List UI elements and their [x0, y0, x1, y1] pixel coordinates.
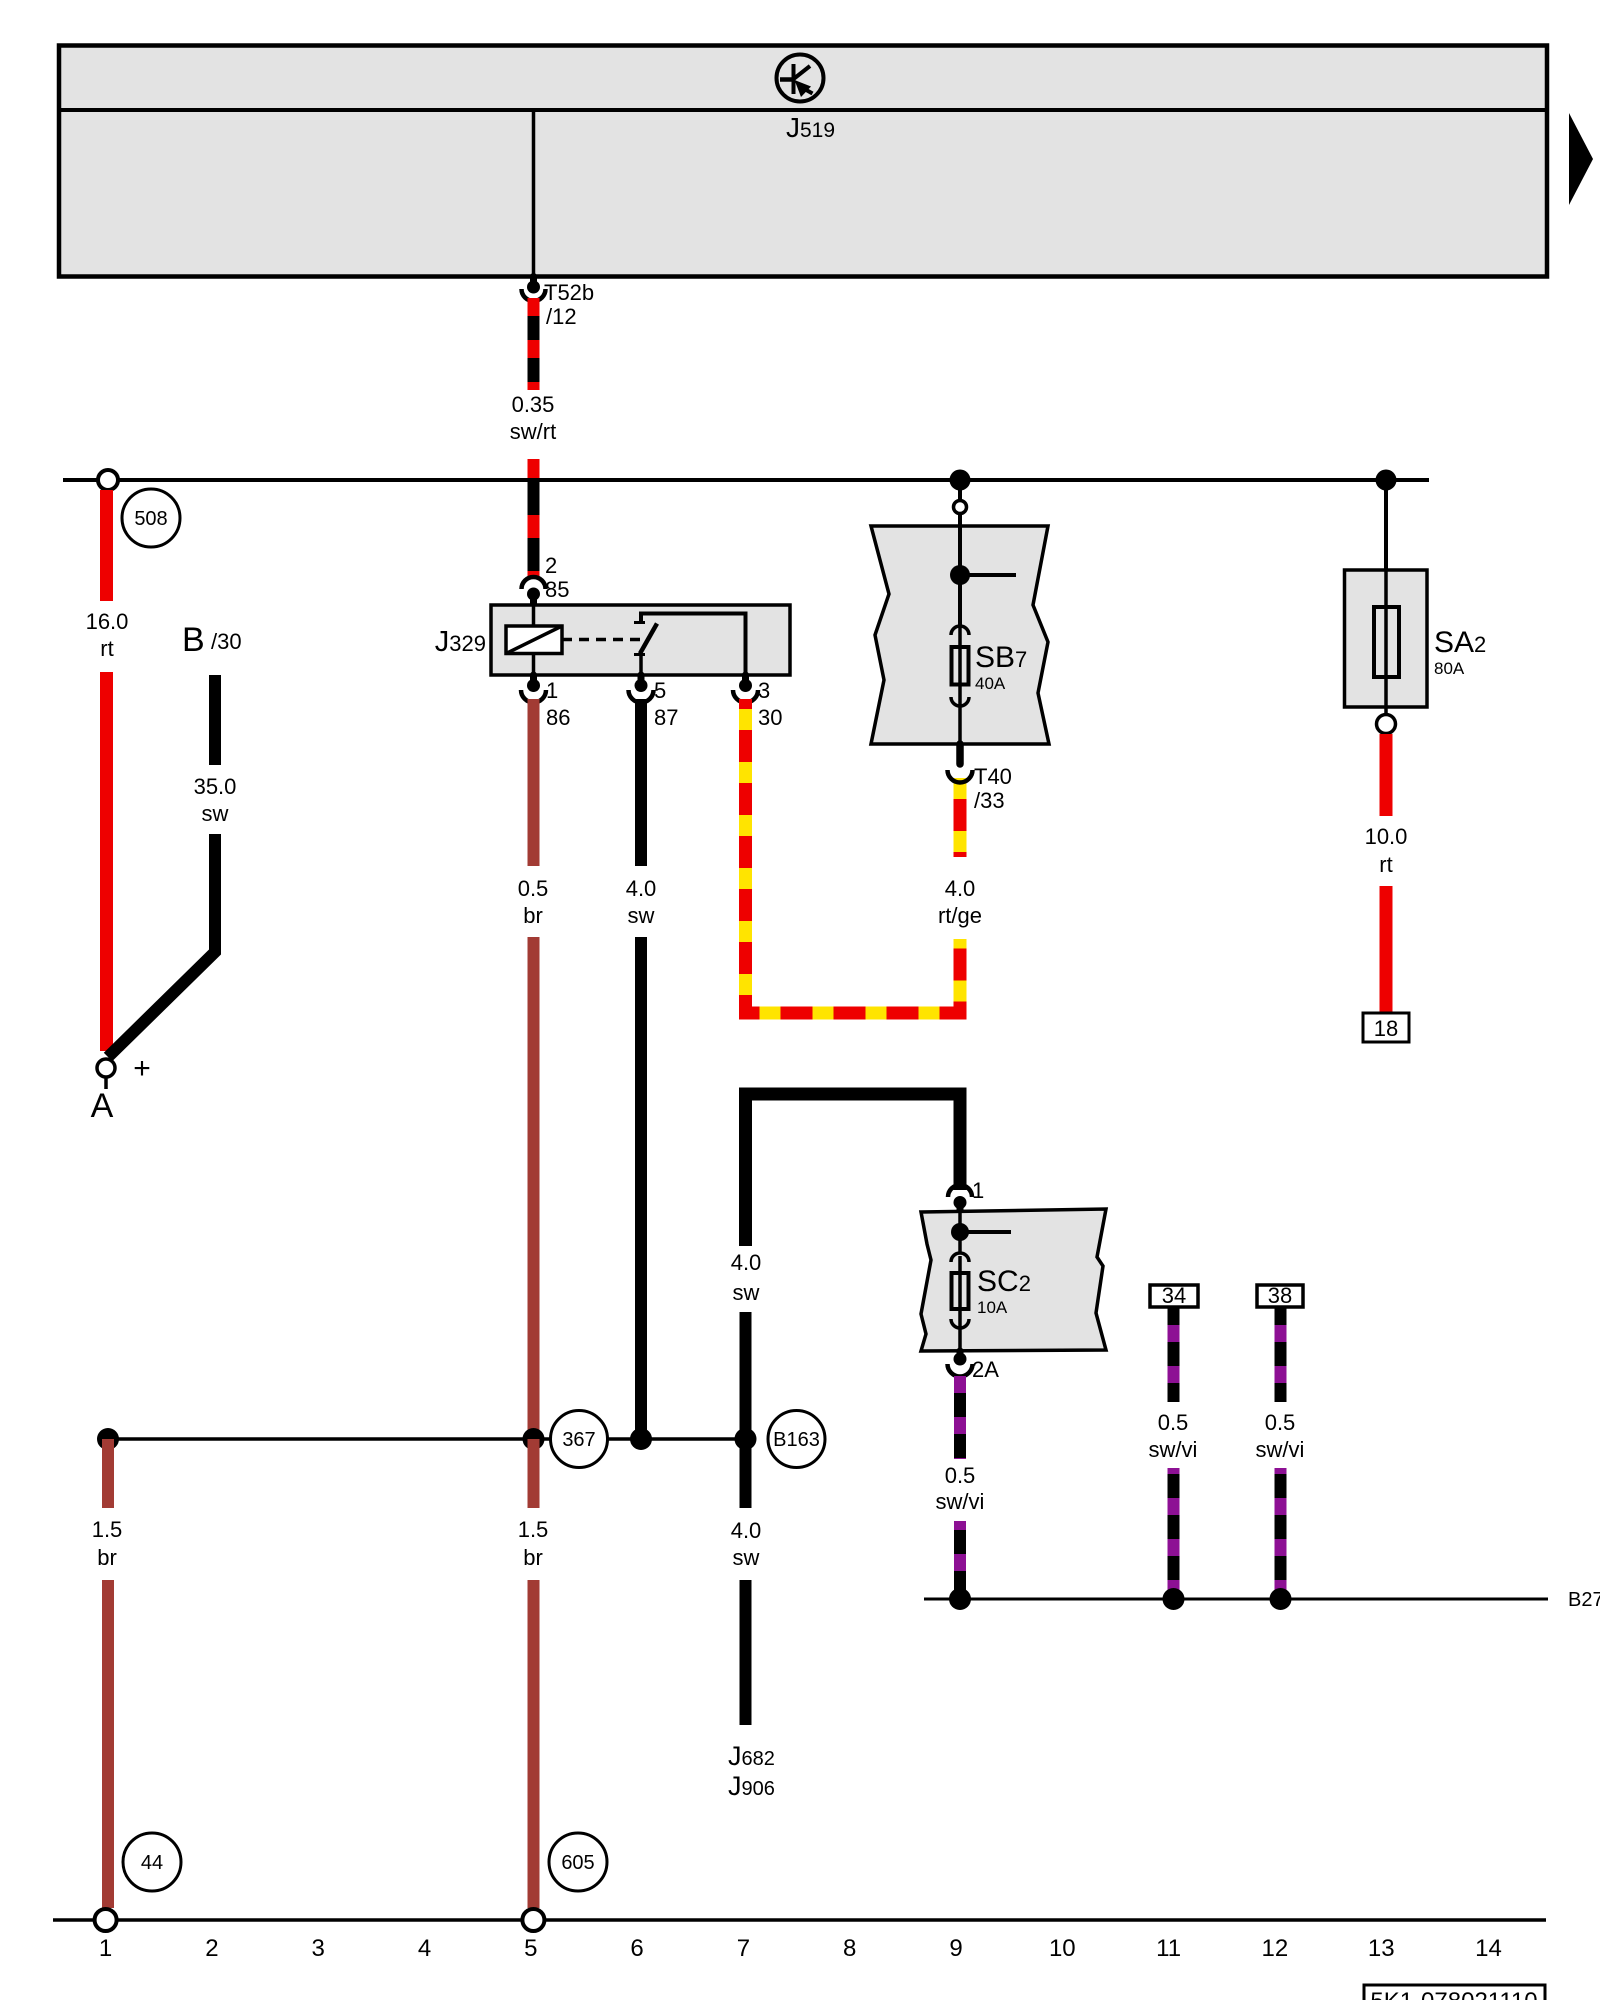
relay pin 1/86 — [521, 675, 546, 702]
svg-text:4.0: 4.0 — [731, 1518, 762, 1543]
junction 367 — [523, 1428, 545, 1450]
stub wire inside SB7 — [960, 573, 1016, 577]
wire 16.0 rt segment 1 — [100, 490, 113, 601]
svg-text:T52b: T52b — [544, 280, 594, 305]
svg-text:sw/vi: sw/vi — [1149, 1437, 1198, 1462]
junction inside SC2 — [951, 1223, 969, 1241]
connector circle above SB7 — [954, 501, 967, 514]
svg-text:/12: /12 — [546, 304, 577, 329]
diagram number box 5K1-078021110 — [1364, 1985, 1545, 2000]
junction 87-wire — [630, 1428, 652, 1450]
fuse SA2 80A element — [1374, 607, 1399, 677]
relay switch contact — [634, 614, 746, 676]
svg-text:0.5: 0.5 — [945, 1463, 976, 1488]
fuse SB7 40A — [951, 626, 969, 708]
wire 4.0 sw to node B163 — [740, 1312, 752, 1439]
wire 0.5 sw/vi (34) segment 2 — [1168, 1468, 1180, 1599]
svg-text:sw/vi: sw/vi — [1256, 1437, 1305, 1462]
connector 38 — [1257, 1285, 1303, 1307]
svg-text:rt: rt — [100, 636, 113, 661]
wire 35.0 sw segment 1 — [209, 675, 221, 765]
wire 4.0 sw below B163 segment 1 — [740, 1439, 752, 1508]
svg-text:B278: B278 — [1568, 1589, 1600, 1611]
connector circle below SA2 — [1377, 715, 1396, 734]
svg-text:6: 6 — [630, 1935, 643, 1962]
svg-text:4.0: 4.0 — [731, 1250, 762, 1275]
svg-text:sw/vi: sw/vi — [936, 1489, 985, 1514]
svg-text:12: 12 — [1262, 1935, 1289, 1962]
wire inside SB7 upper — [958, 513, 962, 626]
wire 0.5 sw/vi from SC2 segment 1 — [954, 1376, 966, 1459]
wire 4.0 sw below B163 segment 2 — [740, 1580, 752, 1725]
junction 34 wire on B278 — [1163, 1588, 1185, 1610]
svg-text:4: 4 — [418, 1935, 431, 1962]
junction left end — [97, 1428, 119, 1450]
svg-text:B: B — [182, 621, 205, 659]
wire 0.5 br segment 2 — [528, 937, 540, 1439]
wire 0.5 sw/vi (34) segment 1 — [1168, 1307, 1180, 1402]
wire 4.0 rt/ge U-path from pin 30 to SB7 — [746, 699, 961, 1013]
junction B163 — [735, 1428, 757, 1450]
svg-text:38: 38 — [1268, 1283, 1292, 1308]
plus rail (terminal 30 bus) — [63, 478, 1429, 482]
wire 1.5 br left segment 2 — [102, 1580, 114, 1908]
fuse SC2 10A — [951, 1253, 969, 1351]
svg-text:4.0: 4.0 — [945, 876, 976, 901]
wire 16.0 rt segment 2 — [100, 672, 113, 1051]
svg-text:80A: 80A — [1434, 659, 1465, 678]
svg-text:0.5: 0.5 — [1265, 1410, 1296, 1435]
svg-text:10.0: 10.0 — [1365, 824, 1408, 849]
junction inside SB7 — [950, 565, 970, 585]
wire 0.5 sw/vi (38) segment 2 — [1275, 1468, 1287, 1599]
svg-text:13: 13 — [1368, 1935, 1395, 1962]
svg-text:35.0: 35.0 — [194, 774, 237, 799]
fuse SA2 box — [1345, 570, 1428, 707]
svg-text:5K1-078021110: 5K1-078021110 — [1370, 1988, 1537, 2000]
svg-text:1: 1 — [99, 1935, 112, 1962]
wire 1.5 br left segment 1 — [102, 1439, 114, 1508]
svg-text:3: 3 — [312, 1935, 325, 1962]
svg-text:2: 2 — [545, 553, 557, 578]
connector T40/33 — [948, 744, 973, 783]
svg-text:40A: 40A — [975, 674, 1006, 693]
svg-text:1.5: 1.5 — [518, 1517, 549, 1542]
black U-path 4.0 sw to SC2 — [746, 1094, 961, 1246]
svg-text:3: 3 — [758, 678, 770, 703]
SC2 pin 1 — [948, 1185, 972, 1213]
svg-text:87: 87 — [654, 705, 678, 730]
svg-text:sw/rt: sw/rt — [510, 419, 556, 444]
wire 4.0 sw (87) segment 1 — [635, 699, 647, 866]
svg-text:br: br — [97, 1545, 117, 1570]
node label 605 — [549, 1833, 607, 1891]
svg-text:rt/ge: rt/ge — [938, 903, 982, 928]
svg-text:10: 10 — [1049, 1935, 1076, 1962]
svg-text:1: 1 — [972, 1178, 984, 1203]
svg-text:34: 34 — [1162, 1283, 1186, 1308]
battery positive terminal A — [97, 1059, 115, 1089]
relay pin 2/85 — [522, 577, 546, 606]
svg-text:2: 2 — [205, 1935, 218, 1962]
svg-text:1: 1 — [546, 678, 558, 703]
terminal box 18 — [1363, 1013, 1409, 1042]
wire 4.0 sw (87) segment 2 — [635, 937, 647, 1439]
wire 0.5 sw/vi from SC2 segment 2 — [954, 1521, 966, 1599]
arrow continuation marker right — [1569, 113, 1593, 205]
J519 internal symbol (circle with arrow) — [777, 55, 824, 102]
svg-text:sw: sw — [733, 1280, 760, 1305]
wire 10.0 rt segment 1 — [1380, 734, 1393, 816]
terminal circle bottom left — [95, 1909, 117, 1931]
svg-text:rt: rt — [1379, 852, 1392, 877]
control unit J519 box — [57, 46, 1549, 277]
relay pin 5/87 — [629, 675, 654, 702]
wire from rail to SA2 — [1384, 490, 1388, 570]
relay J329 box — [491, 605, 790, 675]
node label 44 — [123, 1833, 181, 1891]
svg-text:+: + — [133, 1052, 151, 1085]
svg-text:sw: sw — [202, 801, 229, 826]
dashed actuation link — [562, 638, 646, 642]
svg-text:14: 14 — [1475, 1935, 1502, 1962]
grid numbers 1-14 — [99, 1935, 1502, 1962]
svg-text:4.0: 4.0 — [626, 876, 657, 901]
svg-text:30: 30 — [758, 705, 782, 730]
svg-text:0.5: 0.5 — [1158, 1410, 1189, 1435]
node label B163 — [768, 1411, 825, 1468]
svg-text:B163: B163 — [773, 1429, 820, 1451]
wire inside SA2 — [1384, 570, 1388, 714]
wire 1.5 br mid segment 2 — [528, 1580, 540, 1908]
svg-text:/30: /30 — [211, 629, 242, 654]
SC2 pin 2A — [948, 1351, 973, 1377]
junction 38 wire on B278 — [1270, 1588, 1292, 1610]
svg-text:7: 7 — [737, 1935, 750, 1962]
svg-text:16.0: 16.0 — [86, 609, 129, 634]
wire 0.5 sw/vi (38) segment 1 — [1275, 1307, 1287, 1402]
terminal circle bottom mid — [522, 1909, 544, 1931]
svg-text:J329: J329 — [435, 626, 486, 658]
wire 0.35 sw/rt segment 2 — [528, 459, 540, 577]
wire inside J519 to T52b — [532, 110, 536, 277]
wire inside SB7 lower — [958, 708, 962, 744]
svg-text:sw: sw — [628, 903, 655, 928]
svg-text:T40: T40 — [974, 764, 1012, 789]
svg-text:5: 5 — [524, 1935, 537, 1962]
wire 10.0 rt segment 2 — [1380, 886, 1393, 1013]
svg-text:508: 508 — [134, 508, 167, 530]
connector 34 — [1150, 1285, 1198, 1307]
wire from rail to fuse box SB7 — [958, 490, 962, 501]
svg-text:85: 85 — [545, 577, 569, 602]
wire 0.35 sw/rt segment 1 — [528, 298, 540, 390]
ground bus B278 — [924, 1598, 1548, 1601]
node label 508 — [122, 489, 180, 547]
wire inside SC2 upper — [958, 1212, 962, 1253]
svg-text:/33: /33 — [974, 788, 1005, 813]
junction SA2 branch — [1376, 470, 1397, 491]
svg-text:2A: 2A — [972, 1357, 999, 1382]
fuse box SC2 (torn box) — [921, 1209, 1106, 1351]
svg-text:0.35: 0.35 — [512, 392, 555, 417]
svg-text:0.5: 0.5 — [518, 876, 549, 901]
wire 0.5 br segment 1 — [528, 699, 540, 866]
junction SC2 wire on B278 — [949, 1588, 971, 1610]
svg-text:sw: sw — [733, 1545, 760, 1570]
svg-text:11: 11 — [1156, 1935, 1181, 1962]
svg-text:1.5: 1.5 — [92, 1517, 123, 1542]
svg-text:8: 8 — [843, 1935, 856, 1962]
junction SB7 branch — [950, 470, 971, 491]
wire 1.5 br mid segment 1 — [528, 1439, 540, 1508]
svg-text:A: A — [91, 1087, 114, 1125]
wire 35.0 sw segment 2 (to terminal A) — [108, 834, 215, 1057]
stub wire inside SC2 — [960, 1230, 1011, 1234]
svg-text:10A: 10A — [977, 1298, 1008, 1317]
fuse box SB7 (torn box) — [871, 526, 1049, 744]
svg-text:9: 9 — [949, 1935, 962, 1962]
relay pin 3/30 — [733, 675, 758, 702]
svg-text:18: 18 — [1374, 1016, 1398, 1041]
svg-text:br: br — [523, 903, 543, 928]
svg-text:5: 5 — [654, 678, 666, 703]
svg-text:86: 86 — [546, 705, 570, 730]
svg-text:br: br — [523, 1545, 543, 1570]
bottom reference rail — [53, 1918, 1546, 1922]
relay coil — [506, 605, 562, 675]
svg-text:44: 44 — [141, 1852, 163, 1874]
node label 367 — [551, 1411, 608, 1468]
svg-text:605: 605 — [561, 1852, 594, 1874]
node line to 367/B163 — [108, 1437, 746, 1441]
svg-text:367: 367 — [562, 1429, 595, 1451]
connector T52b/12 — [522, 277, 546, 302]
terminal circle on rail left — [98, 470, 118, 490]
